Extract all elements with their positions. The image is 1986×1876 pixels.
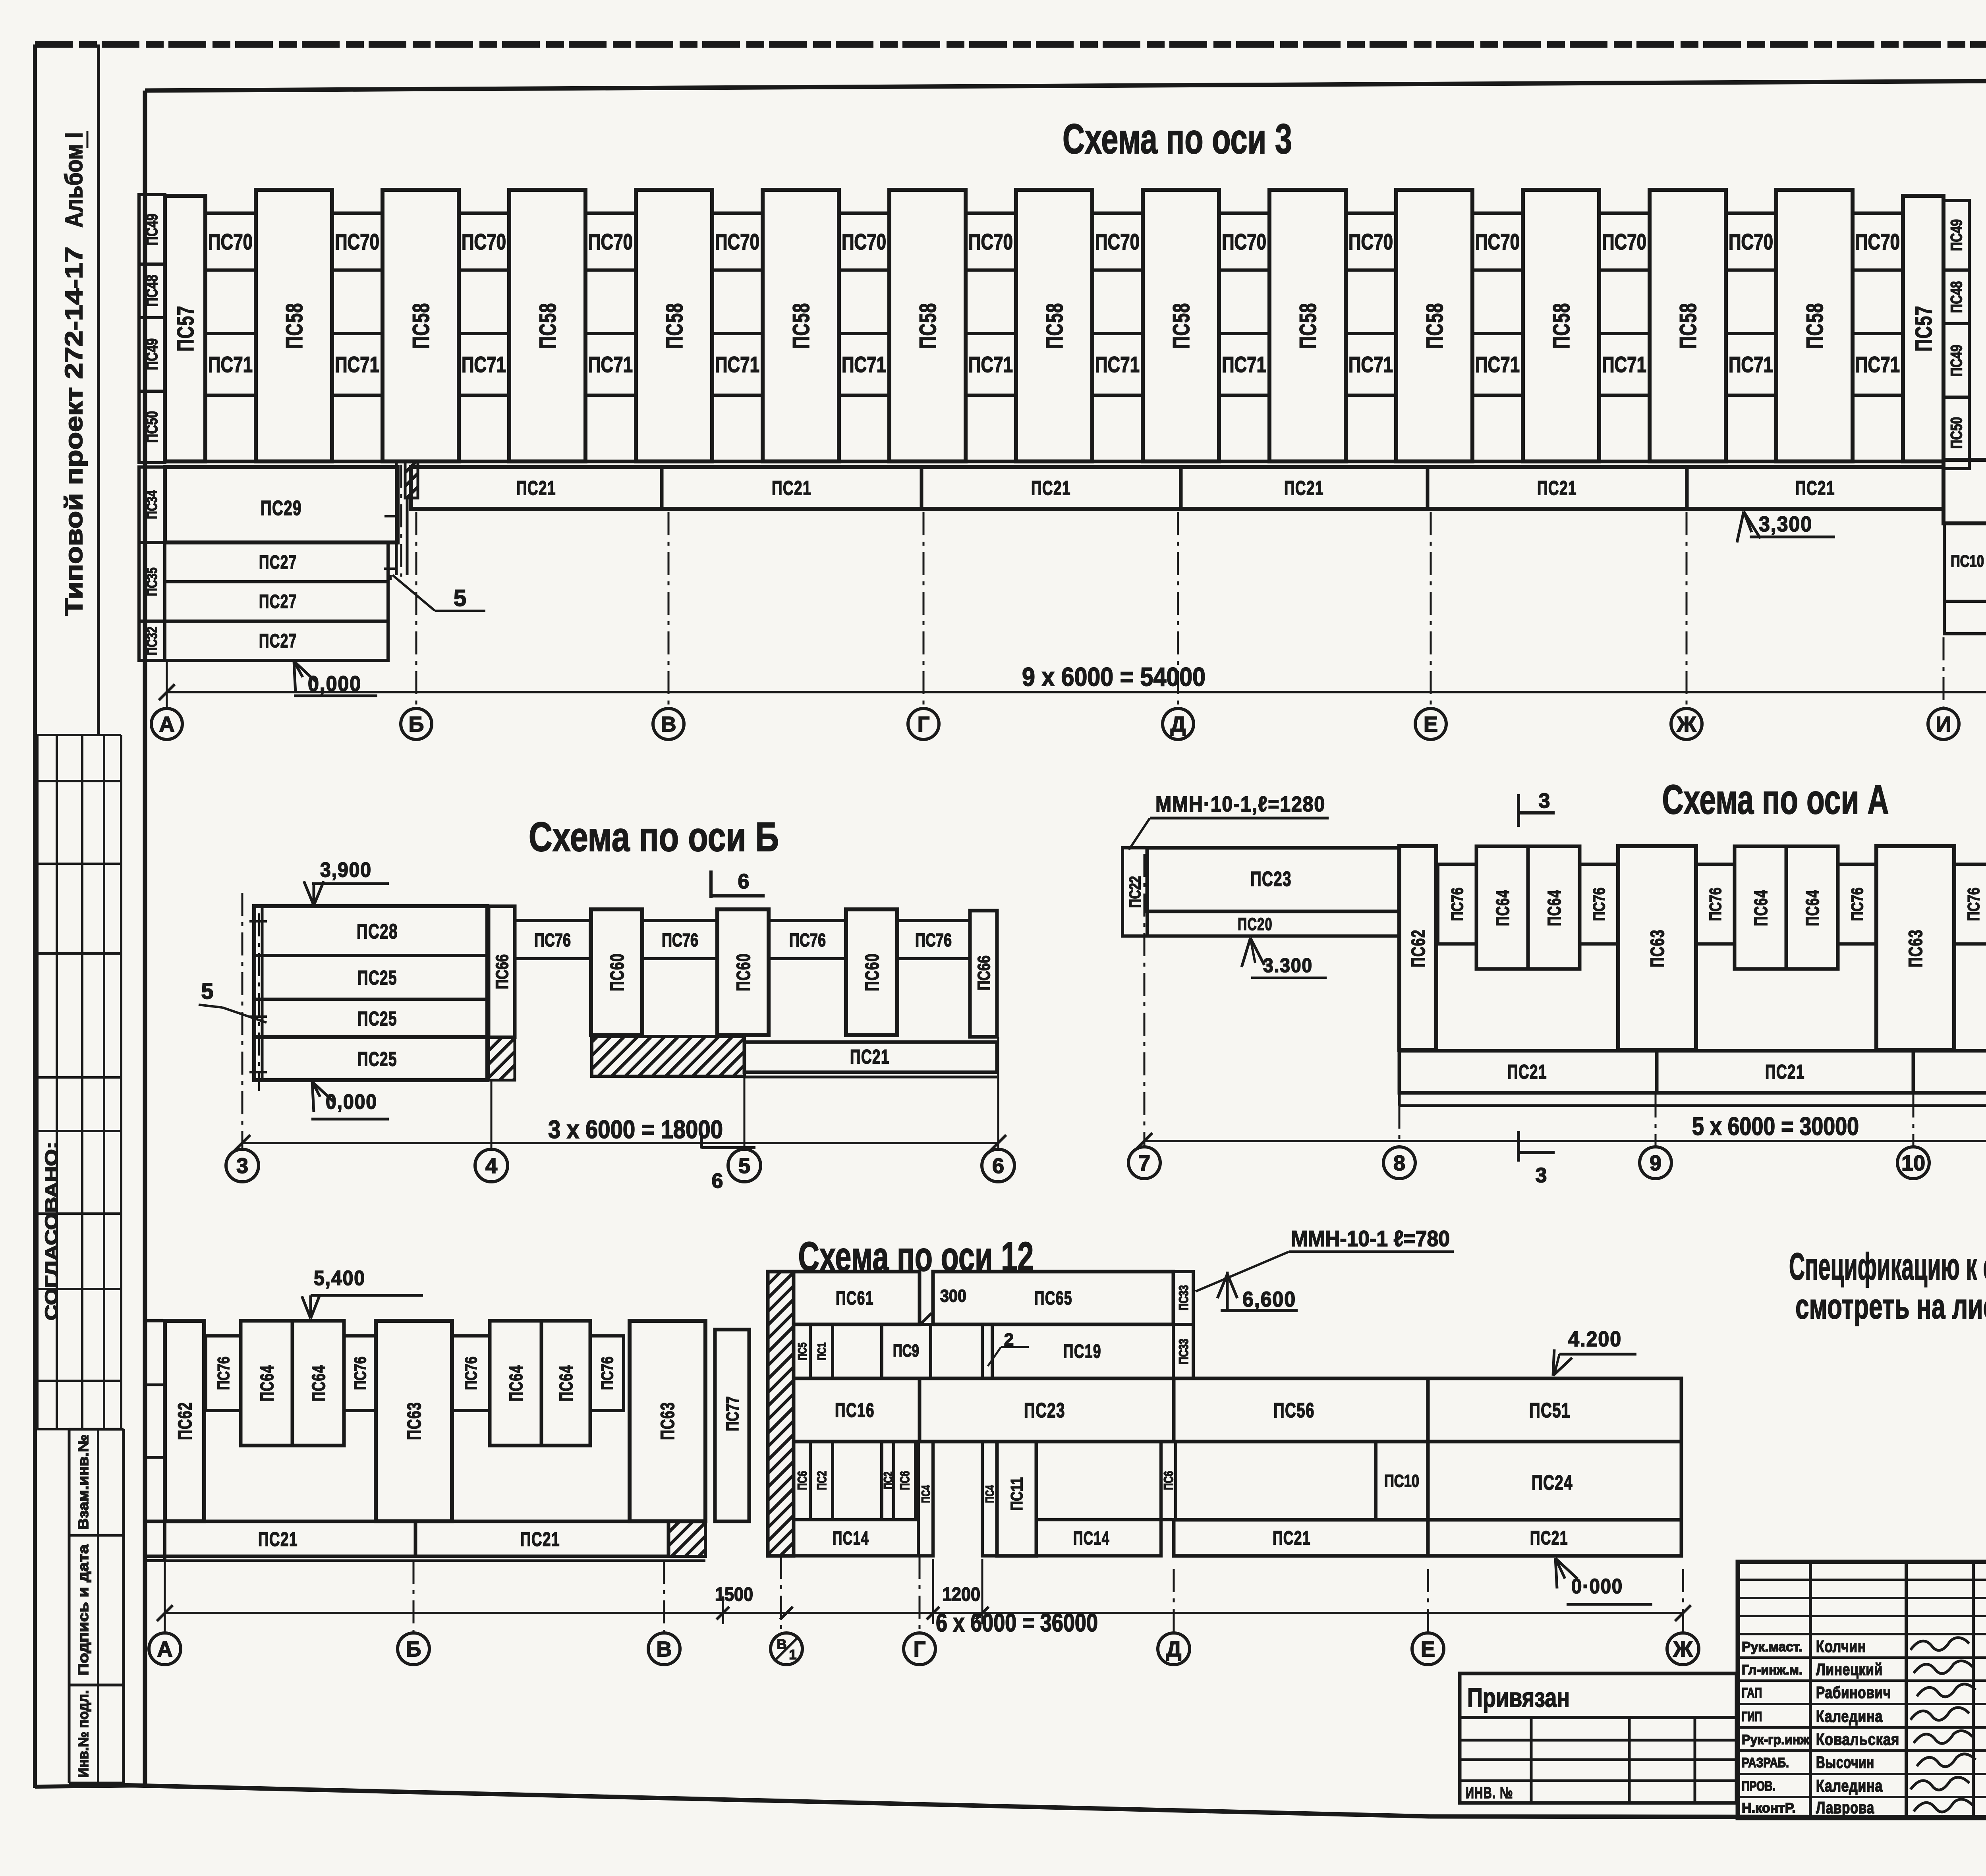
spandrel PS76 row scheme B: [515, 921, 590, 959]
svg-text:ПС76: ПС76: [1590, 888, 1608, 921]
svg-text:4.200: 4.200: [1568, 1327, 1622, 1351]
title block signature columns: [1809, 1562, 1812, 1818]
svg-text:В: В: [777, 1637, 787, 1652]
svg-text:ПС25: ПС25: [357, 1007, 397, 1030]
svg-text:ПС70: ПС70: [842, 229, 886, 254]
spandrel PS76 s4: [590, 1336, 624, 1411]
svg-text:ГИП: ГИП: [1742, 1709, 1762, 1724]
column PS63 a1: [1876, 846, 1954, 1050]
svg-text:В: В: [657, 1637, 672, 1661]
svg-text:1200: 1200: [942, 1584, 980, 1605]
wide panel PS58 #7: [1016, 190, 1092, 461]
svg-text:6,600: 6,600: [1242, 1287, 1296, 1311]
svg-text:4: 4: [485, 1154, 497, 1178]
svg-text:ГАП: ГАП: [1742, 1685, 1762, 1700]
svg-text:ПС22: ПС22: [1126, 876, 1144, 908]
svg-text:ПС58: ПС58: [282, 303, 307, 349]
svg-text:ПС71: ПС71: [335, 352, 379, 377]
svg-text:ПС4: ПС4: [920, 1485, 933, 1503]
svg-text:ПС34: ПС34: [144, 490, 160, 519]
elevation 0.000 scheme 12: [1555, 1558, 1578, 1579]
svg-text:ПС14: ПС14: [833, 1528, 869, 1548]
narrow column 11 PS70/PS71: [1472, 213, 1523, 461]
inner frame: [145, 78, 1986, 91]
row5: PS21 segments: [1174, 1520, 1428, 1556]
row2: PS5: [794, 1324, 810, 1378]
svg-text:ПС1: ПС1: [815, 1343, 829, 1361]
svg-text:И: И: [1936, 712, 1951, 736]
svg-text:ПС6: ПС6: [1161, 1471, 1176, 1490]
svg-text:Спецификацию к схемам располож: Спецификацию к схемам расположения панел…: [1789, 1245, 1986, 1288]
left margin lower cells: [69, 1428, 124, 1431]
svg-text:ПС70: ПС70: [1729, 229, 1773, 254]
column PS66 left: [489, 906, 515, 1037]
svg-text:ПС62: ПС62: [1408, 929, 1429, 967]
svg-text:ПС27: ПС27: [259, 552, 297, 573]
svg-text:ПС48: ПС48: [1948, 281, 1965, 313]
svg-text:ПС58: ПС58: [1042, 303, 1068, 349]
svg-text:ПС49: ПС49: [1948, 219, 1965, 251]
strip PS33 top: [1173, 1272, 1193, 1324]
svg-text:ПС76: ПС76: [214, 1357, 233, 1390]
column PS11: [997, 1442, 1036, 1556]
svg-text:ПС71: ПС71: [1602, 352, 1646, 377]
strip PS6 row4 right: [1161, 1442, 1176, 1520]
row3: PS51: [1428, 1378, 1681, 1442]
svg-text:1500: 1500: [715, 1584, 753, 1605]
svg-text:ПС28: ПС28: [357, 920, 398, 943]
spandrel PS76 a12: [1838, 864, 1876, 944]
wide panel PS58 #13: [1776, 190, 1853, 461]
svg-text:5,400: 5,400: [314, 1267, 365, 1290]
hatch block scheme 12 left: [668, 1521, 705, 1556]
right block middle row: [1944, 523, 1986, 601]
spandrel PS76 a11: [1696, 864, 1735, 944]
section mark 3 top: [1517, 794, 1520, 827]
dimension line scheme 12: [165, 1612, 1683, 1614]
row4 cells: [794, 1442, 810, 1520]
svg-text:ПС64: ПС64: [1750, 890, 1771, 926]
svg-text:ПС64: ПС64: [556, 1365, 576, 1401]
svg-text:ПС58: ПС58: [1295, 303, 1321, 349]
svg-text:6: 6: [992, 1154, 1004, 1178]
svg-text:ПС76: ПС76: [1448, 888, 1466, 921]
svg-text:ПС29: ПС29: [261, 497, 302, 520]
svg-text:ПС71: ПС71: [1855, 352, 1900, 377]
svg-text:ПС27: ПС27: [259, 591, 297, 612]
row3: PS56: [1174, 1378, 1428, 1442]
svg-text:3.300: 3.300: [1263, 954, 1313, 977]
panel PS29: [165, 467, 398, 542]
svg-text:ПС21: ПС21: [1530, 1528, 1568, 1549]
dimension line scheme A: [1144, 1140, 1986, 1142]
svg-text:ПС76: ПС76: [598, 1357, 616, 1390]
svg-text:300: 300: [940, 1286, 966, 1306]
axis circles scheme A: [1128, 1147, 1160, 1179]
column PS77: [715, 1330, 749, 1521]
section mark 3 bottom: [1517, 1131, 1520, 1162]
panel PS64 s4: [541, 1321, 590, 1446]
svg-text:ПС23: ПС23: [1250, 868, 1292, 891]
svg-text:ПС65: ПС65: [1034, 1288, 1072, 1309]
svg-text:ПС21: ПС21: [772, 477, 811, 499]
svg-text:ПС70: ПС70: [1348, 229, 1393, 254]
svg-text:ПС60: ПС60: [733, 953, 754, 991]
svg-text:10: 10: [1901, 1151, 1925, 1175]
svg-text:ПС70: ПС70: [1602, 229, 1646, 254]
svg-text:ПС21: ПС21: [1507, 1061, 1547, 1083]
svg-text:ПС60: ПС60: [862, 953, 883, 991]
wide panel PS58 #5: [763, 190, 839, 461]
strip PS4 row4: [918, 1442, 933, 1556]
svg-text:ПС57: ПС57: [173, 305, 199, 351]
svg-text:ПС70: ПС70: [208, 229, 253, 254]
svg-text:Ж: Ж: [1673, 1637, 1693, 1661]
svg-text:ПС76: ПС76: [1848, 888, 1866, 921]
svg-text:смотреть на листах 59, 60.: смотреть на листах 59, 60.: [1795, 1287, 1986, 1326]
svg-text:ПС6: ПС6: [795, 1471, 809, 1490]
panel PS64 s3: [490, 1321, 541, 1446]
svg-text:ПС62: ПС62: [175, 1402, 196, 1440]
elevation 3.300 scheme A: [1250, 938, 1264, 965]
svg-text:Взам.инв.№: Взам.инв.№: [75, 1434, 91, 1530]
row3: PS16: [794, 1378, 920, 1442]
svg-text:Б: Б: [409, 712, 424, 736]
svg-text:Г: Г: [918, 712, 930, 736]
svg-text:ПС70: ПС70: [462, 229, 506, 254]
svg-text:ПС25: ПС25: [357, 967, 397, 989]
svg-text:ПС66: ПС66: [974, 955, 994, 990]
strip PS4b row4: [982, 1442, 997, 1556]
svg-text:Д: Д: [1166, 1637, 1181, 1661]
narrow column 9 PS70/PS71: [1219, 213, 1269, 461]
svg-text:ПС71: ПС71: [1475, 352, 1520, 377]
svg-text:ПС60: ПС60: [607, 953, 628, 991]
svg-text:ПС70: ПС70: [715, 229, 759, 254]
svg-text:ПС2: ПС2: [815, 1471, 829, 1490]
svg-text:Н.контР.: Н.контР.: [1742, 1801, 1796, 1816]
svg-text:ПС71: ПС71: [715, 352, 759, 377]
svg-text:Высочин: Высочин: [1816, 1753, 1874, 1772]
svg-text:3: 3: [1536, 1164, 1547, 1187]
svg-text:Д: Д: [1171, 712, 1186, 736]
panel PS24: [1428, 1442, 1681, 1520]
panel PS14 bottom right block: [1944, 601, 1986, 634]
svg-text:Е: Е: [1421, 1637, 1435, 1661]
band PS20: [1147, 911, 1399, 936]
svg-text:ПС58: ПС58: [788, 303, 814, 349]
svg-text:ПС21: ПС21: [1765, 1061, 1805, 1083]
svg-text:ПС58: ПС58: [915, 303, 941, 349]
svg-text:Ковальская: Ковальская: [1816, 1730, 1899, 1749]
svg-text:ПС66: ПС66: [493, 954, 512, 989]
panel PS57 left: [165, 196, 205, 461]
svg-text:3,900: 3,900: [320, 859, 372, 882]
svg-text:ПС58: ПС58: [1802, 303, 1828, 349]
svg-text:ПС71: ПС71: [842, 352, 886, 377]
narrow column 6 PS70/PS71: [839, 213, 889, 461]
svg-text:ПС58: ПС58: [535, 303, 561, 349]
hatched strip scheme B: [592, 1036, 744, 1076]
panel PS64 s2: [292, 1321, 344, 1446]
svg-text:3: 3: [1539, 789, 1550, 813]
svg-text:А: А: [159, 712, 175, 736]
elevation 0,000 scheme B: [312, 1082, 334, 1102]
svg-text:Линецкий: Линецкий: [1816, 1660, 1883, 1679]
svg-text:ПС10: ПС10: [1951, 552, 1984, 570]
svg-text:ПС58: ПС58: [1675, 303, 1701, 349]
svg-text:ПС58: ПС58: [408, 303, 434, 349]
door opening 1200: [933, 1519, 982, 1520]
svg-text:ПС71: ПС71: [1729, 352, 1773, 377]
spandrel PS76 s2: [344, 1336, 376, 1411]
wide panel PS58 #12: [1650, 190, 1726, 461]
svg-text:ПС58: ПС58: [662, 303, 688, 349]
svg-text:ПС5: ПС5: [796, 1343, 809, 1361]
svg-text:1: 1: [789, 1647, 797, 1662]
svg-text:ПС63: ПС63: [1905, 929, 1926, 967]
svg-text:ПС71: ПС71: [208, 352, 253, 377]
axis dash lines scheme 3: [166, 660, 168, 708]
svg-text:6 х 6000 = 36000: 6 х 6000 = 36000: [936, 1608, 1098, 1637]
left strip scheme 12: [145, 1321, 165, 1561]
wide panel PS58 #3: [509, 190, 585, 461]
svg-text:ПС50: ПС50: [1948, 417, 1965, 449]
svg-text:ПС70: ПС70: [1475, 229, 1520, 254]
wall edge double line: [395, 461, 398, 575]
panel PS10 scheme 12: [1376, 1442, 1428, 1520]
svg-text:5: 5: [201, 979, 213, 1004]
svg-text:ПС64: ПС64: [506, 1365, 526, 1401]
spandrel PS76 a02: [1580, 864, 1618, 944]
spandrel PS76 s1: [206, 1336, 241, 1411]
wall anchors left edge: [258, 913, 260, 1091]
column PS63 a0: [1618, 846, 1696, 1050]
svg-text:8: 8: [1393, 1151, 1405, 1175]
detail leader 5: [392, 575, 435, 611]
svg-text:ПС76: ПС76: [1964, 888, 1983, 921]
svg-text:ПС76: ПС76: [534, 930, 571, 950]
axis lines scheme A: [1144, 854, 1146, 1147]
band PS21 scheme B: [744, 1042, 997, 1072]
svg-text:ПС19: ПС19: [1063, 1341, 1101, 1362]
svg-text:В: В: [661, 712, 676, 736]
band PS23 scheme A: [1147, 848, 1399, 911]
svg-text:ПС76: ПС76: [789, 930, 826, 950]
svg-text:6: 6: [738, 870, 750, 893]
svg-text:А: А: [157, 1637, 173, 1661]
narrow column 14 PS70/PS71: [1853, 213, 1903, 461]
svg-text:ПС35: ПС35: [144, 567, 160, 596]
svg-text:ПС71: ПС71: [968, 352, 1013, 377]
svg-text:3: 3: [236, 1154, 248, 1178]
panel PS56 right block: [1943, 460, 1986, 523]
outer border left: [33, 44, 37, 1788]
svg-text:ПС63: ПС63: [1647, 929, 1668, 967]
narrow column 13 PS70/PS71: [1726, 213, 1776, 461]
svg-text:ПС51: ПС51: [1529, 1399, 1571, 1422]
svg-text:РАЗРАБ.: РАЗРАБ.: [1742, 1755, 1789, 1770]
svg-text:ПС33: ПС33: [1177, 1339, 1191, 1364]
narrow column 8 PS70/PS71: [1092, 213, 1143, 461]
svg-text:0·000: 0·000: [1571, 1575, 1623, 1598]
svg-text:ПРОВ.: ПРОВ.: [1742, 1779, 1775, 1794]
narrow column 12 PS70/PS71: [1599, 213, 1650, 461]
svg-text:ПС64: ПС64: [308, 1365, 329, 1401]
strip PS33 row2: [1173, 1324, 1193, 1378]
svg-text:СОГЛАСОВАНО:: СОГЛАСОВАНО:: [42, 1142, 61, 1320]
section mark 6 bottom: [700, 1133, 703, 1148]
svg-text:ПС49: ПС49: [143, 338, 161, 370]
column PS62 scheme 12: [165, 1321, 204, 1521]
elevation 6,600: [1226, 1272, 1229, 1310]
svg-text:ПС64: ПС64: [257, 1365, 277, 1401]
svg-text:Лаврова: Лаврова: [1816, 1798, 1874, 1817]
svg-text:ПС21: ПС21: [1273, 1528, 1311, 1549]
svg-text:5: 5: [738, 1154, 750, 1178]
panel PS57 right: [1903, 196, 1943, 461]
svg-text:7: 7: [1138, 1151, 1150, 1175]
svg-text:Привязан: Привязан: [1467, 1683, 1570, 1713]
row3: PS23: [920, 1378, 1174, 1442]
svg-text:ПС76: ПС76: [462, 1357, 480, 1390]
svg-text:Каледина: Каледина: [1816, 1707, 1883, 1725]
svg-text:ПС21: ПС21: [1537, 477, 1577, 499]
svg-text:Схема по оси 3: Схема по оси 3: [1063, 116, 1292, 162]
svg-text:Б: Б: [406, 1637, 421, 1661]
wide panel PS58 #9: [1269, 190, 1346, 461]
svg-text:ПС49: ПС49: [1948, 345, 1965, 376]
svg-text:ПС58: ПС58: [1549, 303, 1575, 349]
columns PS60: [591, 909, 642, 1035]
hatched pylon V/1: [768, 1272, 794, 1556]
spandrel PS76 a01: [1438, 864, 1476, 944]
section mark 6 top: [709, 870, 713, 898]
svg-text:ПС21: ПС21: [258, 1528, 298, 1550]
narrow column 7 PS70/PS71: [966, 213, 1016, 461]
svg-text:3 х 6000 = 18000: 3 х 6000 = 18000: [548, 1115, 723, 1144]
svg-text:3,300: 3,300: [1759, 512, 1812, 536]
wide panel PS58 #6: [889, 190, 966, 461]
svg-text:ПС71: ПС71: [588, 352, 633, 377]
svg-text:Колчин: Колчин: [1816, 1637, 1866, 1656]
left end strip PS49/PS48/PS49/PS50: [139, 195, 165, 264]
panel PS27 row1: [165, 542, 388, 582]
svg-text:ПС71: ПС71: [1348, 352, 1393, 377]
lower strip PS34/PS35/PS32 left: [139, 467, 165, 542]
axis circles scheme B: [226, 1149, 259, 1182]
svg-text:ПС24: ПС24: [1532, 1471, 1573, 1494]
svg-text:Каледина: Каледина: [1816, 1776, 1883, 1795]
panel PS27 row3: [165, 621, 388, 660]
svg-text:ПС70: ПС70: [968, 229, 1013, 254]
axis circle V/1: [771, 1633, 802, 1665]
row5: PS14 right: [1036, 1520, 1161, 1556]
svg-text:ПС76: ПС76: [915, 930, 952, 950]
svg-text:ПС70: ПС70: [588, 229, 633, 254]
svg-text:Типовой проект 272-14-17: Типовой проект 272-14-17: [60, 247, 88, 616]
panel PS27 row2: [165, 582, 388, 621]
svg-text:Ж: Ж: [1677, 712, 1697, 736]
svg-text:ПС50: ПС50: [143, 411, 161, 443]
svg-text:ПС58: ПС58: [1422, 303, 1448, 349]
svg-text:Е: Е: [1424, 712, 1438, 736]
svg-text:ПС23: ПС23: [1024, 1399, 1065, 1422]
dimension line scheme B: [242, 1142, 998, 1144]
svg-text:ПС25: ПС25: [357, 1048, 397, 1070]
svg-text:ПС21: ПС21: [520, 1528, 560, 1550]
panel PS65: [933, 1272, 1173, 1324]
joint 2 dashed: [981, 1324, 983, 1378]
svg-text:Схема по оси А: Схема по оси А: [1662, 777, 1889, 823]
svg-text:Инв.№ подл.: Инв.№ подл.: [75, 1690, 91, 1778]
column PS63 s1: [376, 1321, 452, 1521]
svg-text:ПС32: ПС32: [144, 627, 160, 655]
wide panel PS58 #8: [1143, 190, 1219, 461]
outer border top heavy dashed line: [35, 41, 1986, 48]
svg-text:Подпись и дата: Подпись и дата: [75, 1544, 91, 1675]
margin bottom closure: [35, 1785, 145, 1787]
svg-text:ПС11: ПС11: [1007, 1477, 1026, 1511]
svg-text:ММН·10-1,ℓ=1280: ММН·10-1,ℓ=1280: [1155, 792, 1325, 816]
svg-text:ПС64: ПС64: [1802, 890, 1823, 926]
panel PS64 a11: [1735, 846, 1786, 969]
top row: panel PS61: [794, 1272, 920, 1324]
narrow column 3 PS70/PS71: [459, 213, 509, 461]
column PS62 left scheme A: [1399, 846, 1436, 1050]
svg-text:ПС20: ПС20: [1238, 915, 1273, 934]
svg-text:ММН-10-1 ℓ=780: ММН-10-1 ℓ=780: [1291, 1226, 1450, 1251]
narrow column 1 PS70/PS71: [205, 213, 256, 461]
svg-text:ПС4: ПС4: [983, 1485, 997, 1503]
svg-text:ПС48: ПС48: [143, 275, 161, 307]
dimension line scheme 3: [167, 691, 1986, 693]
svg-text:ПС76: ПС76: [1706, 888, 1725, 921]
panel PS64 s1: [241, 1321, 292, 1446]
svg-text:ПС21: ПС21: [1284, 477, 1324, 499]
svg-text:ПС56: ПС56: [1273, 1399, 1315, 1422]
svg-text:ПС6: ПС6: [898, 1471, 912, 1490]
svg-text:ПС21: ПС21: [516, 477, 556, 499]
panel PS64 a01: [1476, 846, 1528, 969]
left margin divider: [97, 44, 100, 735]
svg-text:ПС10: ПС10: [1384, 1471, 1419, 1491]
svg-text:Гл-инж.м.: Гл-инж.м.: [1742, 1662, 1802, 1677]
title block frame: [1738, 1562, 1986, 1818]
axis lines scheme B: [241, 893, 243, 1149]
svg-text:ПС61: ПС61: [836, 1288, 874, 1309]
panel PS64 a12: [1786, 846, 1838, 969]
hatched joint column: [405, 461, 418, 498]
svg-text:5: 5: [454, 585, 466, 611]
svg-text:9: 9: [1650, 1151, 1661, 1175]
axis lines scheme 12: [164, 1561, 166, 1632]
row2: PS1: [810, 1324, 833, 1378]
left margin table: [36, 735, 39, 1429]
svg-text:ПС63: ПС63: [404, 1402, 425, 1440]
block PS28/PS25 rows: [254, 906, 487, 1080]
wide panel PS58 #1: [256, 190, 332, 461]
svg-text:ПС21: ПС21: [1795, 477, 1835, 499]
svg-text:ИНВ. №: ИНВ. №: [1466, 1784, 1513, 1802]
axis circles scheme 3: [151, 708, 182, 739]
svg-text:ПС76: ПС76: [351, 1357, 369, 1390]
svg-text:ПС64: ПС64: [1544, 890, 1565, 926]
svg-text:ПС76: ПС76: [662, 930, 698, 950]
svg-text:ПС71: ПС71: [1095, 352, 1140, 377]
svg-text:ПС70: ПС70: [1855, 229, 1900, 254]
joint 300: [918, 1272, 921, 1324]
